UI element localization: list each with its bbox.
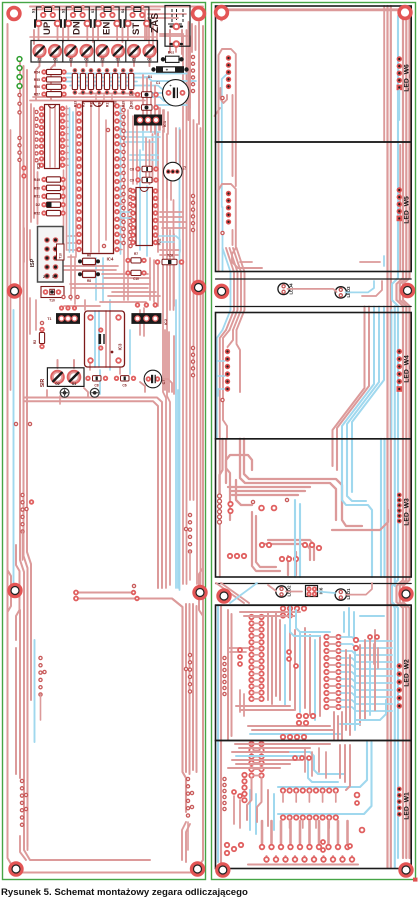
- svg-text:LED_W4: LED_W4: [404, 355, 411, 383]
- svg-text:C7: C7: [162, 380, 166, 385]
- pads W1 right pins: [397, 787, 402, 817]
- test point TP2: [62, 295, 79, 298]
- IC IC3: [85, 311, 125, 367]
- switch S1 (UP): [32, 6, 62, 36]
- svg-text:R8: R8: [87, 279, 91, 283]
- terminal SIR: [40, 368, 84, 387]
- svg-text:R54: R54: [34, 70, 40, 74]
- display LED_W3 outline: [216, 439, 412, 577]
- mounting hole R2: [399, 7, 411, 19]
- resistor R55: [34, 77, 66, 82]
- pads W2 colA: [249, 615, 263, 701]
- rectifier G1: [134, 115, 167, 128]
- via column IC4 right: [122, 108, 125, 244]
- via cluster E: [20, 779, 27, 826]
- capacitor C6: [115, 376, 136, 388]
- svg-text:S4: S4: [121, 9, 125, 13]
- resistor R19: [121, 69, 126, 107]
- svg-text:R49: R49: [34, 178, 40, 182]
- resistor R50: [34, 185, 65, 190]
- via column W3 left: [218, 494, 233, 524]
- svg-text:LED_W1: LED_W1: [404, 792, 411, 820]
- svg-text:R19: R19: [122, 101, 126, 107]
- capacitor C7: [144, 370, 166, 388]
- wire W1 canes: [262, 821, 352, 861]
- mounting hole R5: [218, 590, 230, 602]
- wire W6 left hooks: [219, 44, 393, 142]
- right board edge: [212, 3, 416, 880]
- display LED_W6 outline: [216, 6, 412, 142]
- wire IC4 fanout: [64, 106, 123, 249]
- wire mid vertical bundle: [153, 130, 174, 588]
- wire bus below SIR: [24, 398, 162, 589]
- wire W2 blue fan: [341, 637, 392, 711]
- wire SIR stubs: [47, 360, 172, 397]
- left board edge: [3, 3, 206, 880]
- pads W2 right pins: [397, 663, 402, 708]
- pads W1 bottom left: [225, 840, 352, 855]
- pads W1 row1: [281, 788, 338, 792]
- pads W1 row2: [281, 815, 338, 819]
- switch S3 (EN): [91, 6, 121, 36]
- wire below-IC horizontals: [60, 266, 150, 306]
- mounting hole L1: [8, 8, 20, 20]
- mounting hole L4: [193, 282, 205, 294]
- svg-text:TZd: TZd: [167, 254, 173, 258]
- via cluster A: [21, 493, 33, 533]
- wire right panel top trace: [222, 10, 410, 20]
- via cluster D: [184, 653, 191, 693]
- wire ZAS drops: [145, 7, 203, 125]
- resistor R13: [72, 69, 77, 107]
- wire strip1 LED link: [288, 289, 337, 292]
- IC IC2: [131, 188, 161, 246]
- pads W1 colA: [249, 742, 263, 778]
- pads W4 right pins: [397, 349, 403, 392]
- pads W2 bottom: [281, 638, 358, 739]
- svg-text:EN: EN: [101, 22, 112, 35]
- LED LED1: [335, 589, 346, 600]
- wire W1 extra mesh: [228, 745, 350, 830]
- LED LED4: [278, 283, 289, 294]
- pads W1 cane row2: [264, 857, 354, 862]
- pads W5 right pins: [397, 187, 403, 221]
- mounting hole R8: [400, 864, 412, 876]
- resistor R17: [104, 69, 109, 107]
- svg-text:T10: T10: [49, 299, 55, 303]
- mounting hole L7: [10, 863, 22, 875]
- display LED_W2 outline: [216, 605, 412, 740]
- resistor R14: [80, 69, 85, 107]
- pads W1 cane row1: [260, 845, 350, 850]
- svg-text:LED_W6: LED_W6: [404, 64, 411, 92]
- svg-text:S2: S2: [61, 9, 65, 13]
- wire IC5-IC4 gap extra: [64, 170, 76, 304]
- resistor R20: [129, 69, 134, 107]
- via column right top: [191, 55, 194, 92]
- IC IC5: [36, 105, 64, 170]
- wire mid horizontal bus: [74, 584, 186, 812]
- resistor R18: [113, 69, 118, 107]
- wire left perimeter ground: [8, 7, 204, 873]
- via column left of IC5: [35, 110, 38, 161]
- via column IC4 right 2: [129, 188, 132, 247]
- svg-text:O1: O1: [147, 57, 152, 61]
- pads W6 left pins: [221, 55, 231, 99]
- svg-text:C8: C8: [130, 168, 134, 172]
- wire mid-right blue extra: [120, 212, 180, 252]
- pads W4 left pins: [221, 349, 230, 402]
- svg-text:R50: R50: [34, 186, 40, 190]
- resistor R7: [126, 252, 146, 263]
- display LED_W5 outline: [216, 142, 412, 272]
- via cluster B: [39, 656, 46, 696]
- wire right mid horizontals: [60, 212, 186, 588]
- capacitor C10: [126, 270, 146, 281]
- terminal block Z2/O1: [31, 41, 158, 63]
- corner mark: [413, 878, 418, 882]
- wire W6 right stub: [398, 90, 400, 120]
- svg-text:R56: R56: [34, 85, 40, 89]
- wire mid horizontal runs y258-300: [70, 230, 174, 310]
- wire W5 bottom corners: [240, 256, 384, 266]
- svg-text:T2: T2: [183, 166, 187, 170]
- wire left-of-IC5 verticals: [24, 104, 38, 262]
- wire W6 mini hook: [215, 88, 228, 116]
- svg-text:C10: C10: [133, 277, 139, 281]
- wire W2 left: [218, 605, 232, 864]
- mounting hole L8: [192, 863, 204, 875]
- wire right-top dense bundle: [143, 34, 190, 134]
- wire left lower bundle: [16, 610, 28, 860]
- pads W2 top row: [281, 606, 306, 617]
- resistor R2: [33, 321, 45, 348]
- capacitor C9: [130, 177, 158, 182]
- mounting hole L5: [9, 585, 21, 597]
- connector ZAS: [150, 6, 190, 47]
- svg-text:1: 1: [52, 275, 54, 279]
- svg-text:C8: C8: [94, 384, 98, 388]
- wire W3 blue: [295, 439, 385, 577]
- svg-text:LED1: LED1: [346, 588, 351, 600]
- svg-text:Z2: Z2: [100, 57, 104, 61]
- wire right bundle 1: [183, 30, 201, 588]
- pads W3 lower: [228, 543, 321, 561]
- wire left edge blue: [13, 310, 15, 586]
- transistor T1: [47, 306, 80, 324]
- wire W3 right link: [332, 510, 388, 530]
- svg-text:R55: R55: [34, 78, 40, 82]
- svg-text:UP: UP: [42, 21, 53, 35]
- svg-text:ISP: ISP: [30, 258, 36, 267]
- wire terminal-to-IC verticals: [36, 57, 150, 100]
- resistor R6: [78, 254, 100, 265]
- wire ISP area: [30, 236, 76, 334]
- regulator U2: [131, 303, 168, 325]
- svg-text:2: 2: [43, 275, 45, 279]
- transistor T2: [164, 162, 188, 181]
- svg-text:R6: R6: [87, 254, 91, 258]
- mounting hole R1: [216, 7, 228, 19]
- wire inside IC5: [50, 106, 55, 167]
- svg-text:C6: C6: [122, 384, 126, 388]
- resistor R16: [96, 69, 101, 107]
- via column right low: [191, 346, 194, 376]
- mounting hole L3: [9, 285, 21, 297]
- svg-text:C1: C1: [156, 81, 160, 85]
- svg-text:IC5: IC5: [36, 162, 41, 169]
- svg-text:D2: D2: [36, 203, 40, 207]
- wire W2 colA traces: [254, 617, 260, 699]
- svg-text:R57: R57: [34, 93, 40, 97]
- svg-text:O1: O1: [84, 57, 89, 61]
- mounting hole L2: [193, 8, 205, 20]
- svg-text:SIR: SIR: [40, 378, 46, 387]
- mounting hole L6: [194, 587, 206, 599]
- capacitor C1: [156, 80, 189, 106]
- pads W5 left pins: [221, 191, 231, 235]
- wire strip1 left pass-through: [223, 248, 245, 330]
- pads W2 pairs: [324, 635, 340, 709]
- svg-text:Bez: Bez: [168, 51, 175, 55]
- svg-text:R51: R51: [34, 195, 40, 199]
- wire W4 center bundle: [333, 307, 385, 439]
- wire inside IC4: [91, 103, 106, 252]
- wire W3 nested bus: [226, 439, 362, 526]
- svg-text:T10: T10: [59, 253, 63, 259]
- pads W2 filler: [238, 635, 379, 668]
- pads W1 filler: [232, 756, 311, 798]
- wire W1 blue buses: [250, 742, 372, 834]
- wire W5 left hooks: [219, 184, 263, 271]
- wire switch area bundle: [30, 28, 157, 44]
- svg-text:+: +: [166, 67, 169, 72]
- svg-text:C9: C9: [130, 179, 134, 183]
- wire W2 blue extra: [290, 607, 386, 724]
- svg-text:IC4: IC4: [107, 257, 114, 262]
- wire right panel right bundle: [388, 6, 410, 868]
- LED LED2: [276, 586, 287, 597]
- wire strip2 left diagonals: [216, 583, 276, 603]
- diode D2: [36, 202, 65, 207]
- wire switch drops: [39, 26, 147, 40]
- wire left lower blue: [34, 640, 36, 742]
- connector ISP: [30, 227, 64, 283]
- svg-text:Z2: Z2: [69, 57, 73, 61]
- svg-text:IC2: IC2: [163, 318, 168, 325]
- display LED_W1 outline: [216, 741, 412, 869]
- wire blue rows top: [66, 74, 196, 106]
- svg-text:LED_W5: LED_W5: [404, 196, 411, 224]
- svg-text:IC6: IC6: [319, 587, 324, 594]
- wire W4 left verticals: [220, 330, 240, 577]
- capacitor C2: [129, 105, 158, 111]
- via cluster F: [186, 777, 193, 817]
- IC IC4: [77, 102, 119, 262]
- svg-text:T1: T1: [47, 317, 51, 321]
- via column W2 left: [223, 656, 226, 695]
- diode D1: [148, 66, 189, 79]
- svg-text:C2: C2: [129, 106, 133, 110]
- capacitor C4: [129, 92, 158, 98]
- svg-text:LED_W2: LED_W2: [404, 659, 411, 687]
- resistor R15: [88, 69, 93, 107]
- resistor R49: [34, 177, 65, 182]
- via cluster C: [184, 513, 191, 553]
- capacitor C11: [41, 287, 64, 303]
- wire right panel right blue: [392, 16, 398, 868]
- capacitor C8: [86, 376, 107, 388]
- wire W6 left blue: [222, 73, 229, 208]
- strip1 outline: [216, 279, 412, 307]
- svg-text:Z2: Z2: [132, 57, 136, 61]
- svg-text:IC3: IC3: [118, 343, 123, 350]
- wire W2 filler: [228, 640, 378, 740]
- svg-text:ZAS: ZAS: [150, 13, 161, 33]
- wire W4 left blue: [217, 330, 225, 439]
- wire blue horiz mid: [125, 132, 160, 160]
- svg-text:S1: S1: [32, 9, 36, 13]
- wire right hole jog: [182, 560, 203, 862]
- wire left edge bundle: [20, 62, 150, 860]
- wire W1 colA traces: [254, 744, 260, 776]
- wire left hole jog: [8, 545, 20, 640]
- svg-text:R2: R2: [33, 340, 37, 344]
- resistor R51: [34, 194, 65, 199]
- svg-text:Rysunek 5. Schemat montażowy z: Rysunek 5. Schemat montażowy zegara odli…: [1, 887, 248, 898]
- optocoupler IC6: [306, 586, 318, 597]
- wire W3 lower: [252, 512, 314, 575]
- switch S2 (DN): [61, 6, 91, 36]
- wire W2 horizontals: [236, 612, 340, 734]
- svg-text:D1: D1: [148, 75, 152, 79]
- pads W3 mid: [251, 498, 288, 510]
- wire W6-W5 link: [219, 142, 236, 192]
- svg-text:O1: O1: [116, 57, 121, 61]
- resistor R52: [34, 210, 65, 215]
- via pair mid: [14, 422, 31, 425]
- svg-text:O1: O1: [53, 57, 58, 61]
- mounting hole R6: [400, 588, 412, 600]
- svg-text:S3: S3: [91, 9, 95, 13]
- mounting hole R3: [216, 285, 228, 297]
- wire strip1 right: [346, 281, 383, 296]
- svg-text:IC1: IC1: [162, 120, 167, 127]
- wire IC region verticals: [67, 95, 138, 300]
- LED LED3: [335, 287, 346, 298]
- fuse Bez: [161, 51, 184, 63]
- svg-text:ST: ST: [131, 23, 142, 35]
- pads W6 right pins: [397, 56, 403, 90]
- resistor R8: [78, 271, 100, 283]
- test point B2: [90, 388, 99, 397]
- wire mid-right extra verticals: [146, 108, 180, 200]
- svg-text:IC2: IC2: [157, 238, 162, 245]
- capacitor C8: [130, 166, 158, 171]
- mounting hole R7: [217, 864, 229, 876]
- wire terminal drops: [40, 58, 150, 66]
- mounting hole R4: [402, 285, 414, 297]
- test point B1: [60, 388, 69, 397]
- svg-text:R52: R52: [34, 212, 40, 216]
- resistor R56: [34, 84, 66, 89]
- strip2 outline: [216, 584, 412, 605]
- display LED_W4 outline: [216, 313, 412, 439]
- via column W1 left: [223, 773, 247, 811]
- pads W1 right: [355, 793, 365, 833]
- svg-text:C4: C4: [129, 93, 133, 97]
- svg-text:O2: O2: [55, 382, 60, 386]
- green pads: [17, 57, 22, 89]
- wire right panel extra: [384, 6, 400, 438]
- resistor R54: [34, 69, 66, 74]
- svg-text:R7: R7: [134, 252, 138, 256]
- pads W3 right pins: [397, 493, 402, 524]
- wire blue IC area: [70, 108, 157, 394]
- wire W5 left blue: [222, 207, 224, 271]
- wire W2 middle verticals: [268, 612, 375, 735]
- svg-text:Z2: Z2: [37, 57, 41, 61]
- resistor R57: [34, 92, 66, 97]
- wire W1 filler: [234, 748, 326, 828]
- resistor R9: [156, 254, 184, 265]
- wire W3 left verticals: [220, 439, 231, 524]
- via column left top: [18, 93, 26, 177]
- wire cluster stubs: [23, 531, 191, 850]
- via column right mid: [191, 194, 194, 231]
- wire W1 top horizontals: [232, 744, 330, 756]
- wire strip2 links: [286, 583, 372, 595]
- wire right bundle blue: [176, 128, 180, 590]
- svg-text:O1: O1: [72, 382, 77, 386]
- svg-text:DN: DN: [72, 21, 83, 35]
- wire W1 bottom bus: [248, 863, 358, 865]
- svg-text:LED_W3: LED_W3: [404, 498, 411, 526]
- wire fanout above ICs: [30, 94, 145, 101]
- wire W1 row stubs: [283, 793, 336, 828]
- switch S4 (ST): [121, 6, 150, 36]
- wire IC3 area: [85, 300, 120, 374]
